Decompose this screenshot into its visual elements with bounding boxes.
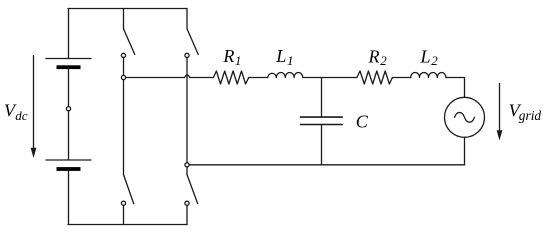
wire: between midpoint node and bottom battery — [68, 111, 70, 160]
wire: right leg below output node — [186, 167, 188, 175]
wire: S4 to bottom rail — [186, 205, 188, 224]
capacitor C: bottom plate — [301, 124, 343, 126]
switch S3 (bottom-left): blade — [124, 175, 134, 204]
switch S1 terminal circle — [121, 53, 125, 57]
switch S1 (top-left): stub + blade — [123, 9, 125, 29]
svg-text:R: R — [368, 46, 380, 66]
wire: bottom DC rail — [68, 224, 187, 226]
wire: between top battery and midpoint node — [68, 69, 70, 106]
wire: left leg between S1 and output node — [123, 58, 125, 76]
wire: left leg between output node and S3 — [123, 80, 125, 175]
switch S3 terminal circle — [121, 201, 125, 205]
wire: top DC rail — [68, 8, 187, 10]
arrow: Vgrid reference arrow — [499, 84, 501, 132]
battery cell top: thick plate — [57, 65, 81, 69]
svg-text:2: 2 — [431, 53, 438, 68]
svg-text:L: L — [275, 46, 286, 66]
wire: bottom return line to bridge — [189, 164, 464, 166]
node: DC midpoint terminal circle — [66, 107, 70, 111]
wire: DC source column upper segment — [68, 9, 70, 59]
node: left leg output terminal circle — [121, 75, 125, 79]
switch S2 (top-right): stub + blade — [186, 9, 188, 29]
battery cell bottom: thick plate — [57, 167, 81, 171]
wire: DC source column lower segment — [68, 171, 70, 225]
node: right leg output terminal circle — [185, 163, 189, 167]
switch S2 terminal circle — [185, 53, 189, 57]
wire: right leg between S2 and lower output node — [186, 58, 188, 163]
AC source Vgrid: circle — [445, 97, 485, 137]
wire: capacitor bottom lead — [321, 125, 323, 165]
AC source Vgrid: sine symbol — [455, 112, 475, 122]
wire: L2 to grid source (corner) — [446, 78, 465, 98]
wire: grid source bottom lead — [464, 137, 466, 165]
svg-text:R: R — [222, 46, 234, 66]
capacitor C: top plate — [301, 116, 343, 118]
switch S4 terminal circle — [185, 201, 189, 205]
battery cell bottom: thin plate — [46, 159, 91, 161]
svg-text:grid: grid — [519, 108, 542, 123]
resistor R2 — [357, 71, 393, 84]
wire: L1 to R2 through capacitor node — [303, 77, 357, 79]
wire: bridge output to R1, with hop over right leg — [126, 75, 214, 77]
wire: capacitor top lead — [321, 78, 323, 118]
resistor R1 — [213, 71, 248, 84]
inductor L2 — [411, 73, 446, 78]
svg-text:L: L — [420, 46, 431, 66]
battery cell top: thin plate — [46, 58, 91, 60]
switch S4 (bottom-right): blade — [187, 175, 198, 204]
svg-text:1: 1 — [287, 53, 294, 68]
svg-text:dc: dc — [15, 108, 28, 123]
svg-text:C: C — [356, 112, 369, 132]
svg-text:2: 2 — [380, 53, 387, 68]
inductor L1 — [268, 72, 303, 77]
wire: R1 to L1 — [249, 77, 268, 79]
wire: S3 to bottom rail — [123, 205, 125, 224]
arrow: Vdc reference arrow — [33, 56, 35, 149]
wire: R2 to L2 — [392, 77, 410, 79]
svg-text:1: 1 — [235, 53, 242, 68]
